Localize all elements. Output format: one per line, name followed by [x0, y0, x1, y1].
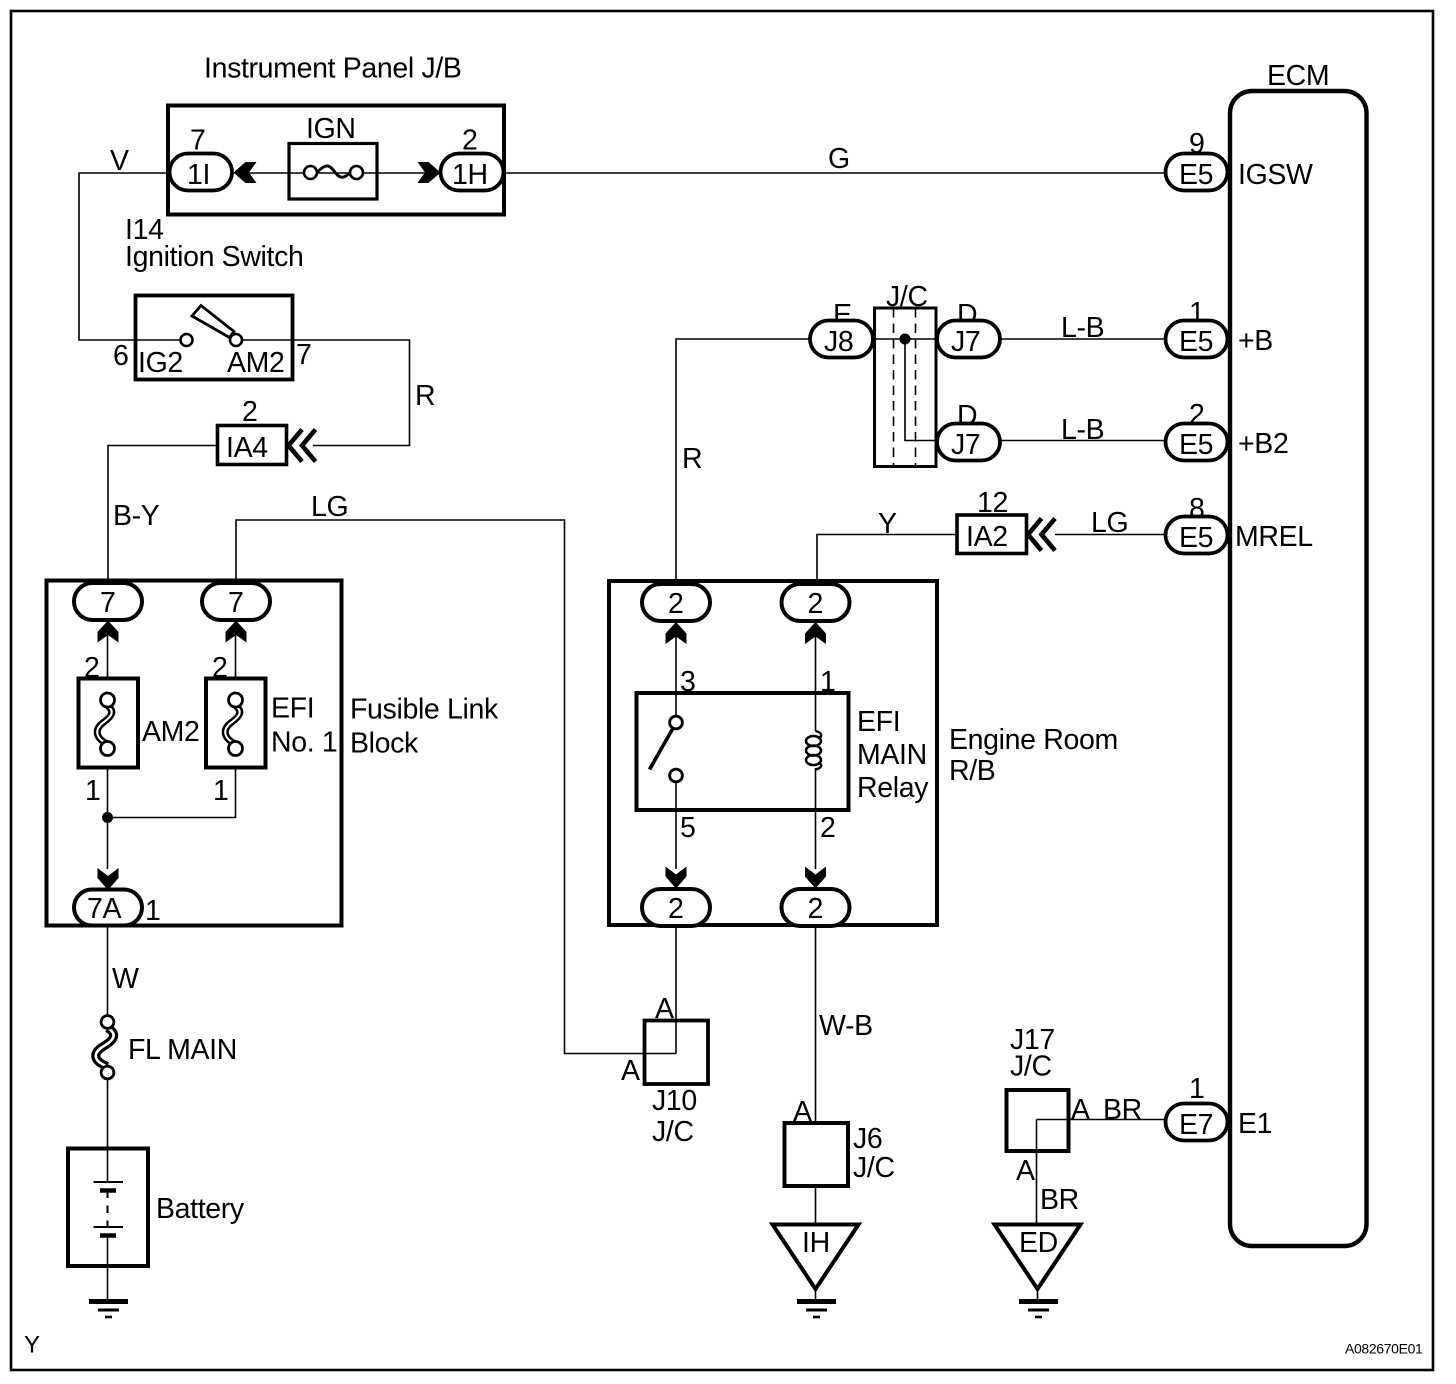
wire internal IPJB	[230, 172, 441, 174]
wire B-Y segment	[108, 446, 218, 584]
fusible link FL MAIN	[96, 1028, 114, 1067]
svg-text:Engine Room: Engine Room	[949, 724, 1118, 756]
svg-text:1: 1	[145, 895, 161, 927]
arrow up top right	[805, 622, 826, 644]
svg-text:BR: BR	[1103, 1094, 1142, 1126]
wire L-B upper	[1000, 338, 1166, 340]
fuse AM2 box	[79, 679, 139, 768]
connector IA4	[218, 426, 287, 465]
svg-text:J/C: J/C	[853, 1152, 895, 1184]
svg-text:IG2: IG2	[138, 347, 183, 379]
wire LG long segment	[236, 520, 676, 1054]
relay coil	[816, 731, 822, 739]
wire ED to ground	[1037, 1289, 1039, 1301]
svg-text:LG: LG	[311, 491, 348, 523]
connector J7 lower	[937, 424, 1000, 461]
svg-text:R: R	[415, 380, 435, 412]
fuse EFI box	[206, 679, 266, 768]
svg-text:IA2: IA2	[966, 521, 1008, 553]
connector IA2	[957, 515, 1027, 554]
connector E5 +B2	[1166, 424, 1228, 461]
ground battery	[89, 1299, 128, 1304]
svg-text:A082670E01: A082670E01	[1345, 1341, 1423, 1357]
wire G segment	[503, 172, 1166, 174]
svg-text:E1: E1	[1238, 1108, 1272, 1140]
svg-text:LG: LG	[1091, 507, 1128, 539]
svg-text:MREL: MREL	[1235, 521, 1313, 553]
svg-text:J10: J10	[652, 1085, 697, 1117]
svg-text:A: A	[621, 1055, 640, 1087]
svg-text:AM2: AM2	[227, 347, 285, 379]
arrow into 1I	[234, 162, 257, 183]
svg-text:V: V	[110, 145, 129, 177]
wire R/B to J10	[675, 925, 677, 1054]
svg-text:Y: Y	[878, 508, 897, 540]
junction connector J6 box	[785, 1123, 849, 1186]
svg-text:7: 7	[228, 587, 244, 619]
wire Y segment	[817, 535, 957, 586]
svg-text:6: 6	[113, 340, 129, 372]
ground IH	[797, 1299, 836, 1304]
svg-text:Ignition Switch: Ignition Switch	[125, 241, 304, 273]
switch lever	[192, 306, 234, 338]
svg-text:5: 5	[680, 812, 696, 844]
svg-text:ECM: ECM	[1267, 60, 1329, 92]
svg-text:IGSW: IGSW	[1238, 159, 1313, 191]
connector E5 IGSW	[1166, 154, 1228, 191]
svg-text:FL MAIN: FL MAIN	[128, 1034, 237, 1066]
arrow up left	[98, 621, 119, 643]
svg-text:2: 2	[668, 893, 684, 925]
relay switch lever	[650, 729, 673, 770]
svg-text:IH: IH	[802, 1227, 830, 1259]
junction connector J10 box	[645, 1021, 709, 1085]
connector J7 upper	[937, 321, 1000, 358]
svg-text:1I: 1I	[187, 159, 210, 191]
svg-text:R: R	[682, 443, 702, 475]
svg-text:Relay: Relay	[857, 772, 929, 804]
fuse IGN box	[289, 144, 377, 200]
svg-text:1: 1	[85, 775, 101, 807]
svg-text:IA4: IA4	[226, 432, 268, 464]
wire W segment	[107, 925, 109, 1017]
svg-text:2: 2	[820, 812, 836, 844]
wire relay coil branch	[815, 621, 817, 731]
ground triangle IH	[773, 1225, 859, 1290]
connector IA4 chevrons	[289, 430, 303, 462]
ignition switch box	[136, 296, 293, 380]
svg-text:2: 2	[668, 588, 684, 620]
ground triangle ED	[995, 1225, 1081, 1290]
ground ED	[1019, 1299, 1058, 1304]
wire junction vertical	[905, 339, 937, 441]
svg-text:Fusible Link: Fusible Link	[350, 694, 499, 726]
svg-text:L-B: L-B	[1061, 312, 1104, 344]
arrow down bottom right	[805, 867, 826, 889]
arrow up right	[226, 621, 247, 643]
svg-text:J6: J6	[853, 1123, 882, 1155]
wire BR to E7	[1037, 1119, 1167, 1121]
wire battery to ground	[107, 1266, 109, 1301]
wire BR down to ED	[1036, 1120, 1038, 1226]
svg-text:1: 1	[213, 775, 229, 807]
connector 1H	[441, 154, 504, 191]
wire R segment	[293, 340, 410, 446]
svg-text:B-Y: B-Y	[113, 500, 160, 532]
wire R to J8	[676, 339, 810, 583]
svg-text:W-B: W-B	[819, 1010, 873, 1042]
svg-text:J8: J8	[824, 326, 853, 358]
junction connector J17 box	[1007, 1090, 1069, 1151]
engine room R/B box	[609, 581, 937, 925]
svg-text:R/B: R/B	[949, 755, 995, 787]
svg-text:BR: BR	[1040, 1184, 1079, 1216]
connector 1I	[170, 154, 233, 191]
connector IA2 chevrons	[1028, 519, 1042, 551]
svg-text:+B2: +B2	[1238, 428, 1288, 460]
svg-text:No. 1: No. 1	[271, 727, 337, 759]
wire relay switch branch	[675, 621, 677, 716]
svg-text:G: G	[828, 143, 850, 175]
svg-text:EFI: EFI	[271, 693, 314, 725]
svg-text:E5: E5	[1179, 159, 1213, 191]
svg-text:E5: E5	[1179, 326, 1213, 358]
svg-text:IGN: IGN	[306, 113, 356, 145]
connector 7 left	[74, 583, 142, 620]
connector E7 E1	[1166, 1104, 1228, 1141]
fusible link block box	[47, 581, 342, 926]
connector 2 bottom right	[782, 889, 850, 926]
junction dot J/C	[900, 334, 911, 345]
wire IH to ground	[815, 1289, 817, 1301]
fuse EFI element	[225, 706, 240, 744]
relay switch contacts	[670, 716, 683, 729]
svg-text:2: 2	[242, 396, 258, 428]
svg-text:W: W	[112, 963, 139, 995]
svg-text:L-B: L-B	[1061, 414, 1104, 446]
svg-text:E5: E5	[1179, 522, 1213, 554]
switch contact AM2	[230, 334, 242, 346]
wire AM2 branch	[107, 620, 109, 694]
arrow into 1H	[418, 162, 441, 183]
svg-text:Instrument Panel J/B: Instrument Panel J/B	[204, 53, 462, 85]
svg-text:ED: ED	[1019, 1227, 1058, 1259]
fuse IGN element	[304, 166, 317, 179]
junction dot	[102, 812, 113, 823]
svg-text:1H: 1H	[452, 159, 488, 191]
switch contact IG2	[181, 334, 193, 346]
svg-text:2: 2	[808, 893, 824, 925]
svg-text:7A: 7A	[87, 893, 122, 925]
svg-text:J7: J7	[951, 326, 980, 358]
arrow down to 7A	[98, 868, 119, 890]
wire LG to MREL	[1055, 534, 1166, 536]
wire J8 to J7	[873, 338, 937, 340]
svg-text:A: A	[1016, 1155, 1035, 1187]
svg-text:AM2: AM2	[142, 716, 200, 748]
wire V segment	[79, 173, 170, 340]
svg-text:Battery: Battery	[156, 1193, 245, 1225]
connector 7 right	[202, 583, 270, 620]
ECM box	[1230, 91, 1367, 1246]
connector 2 top right	[782, 584, 850, 621]
svg-text:7: 7	[100, 587, 116, 619]
arrow down bottom left	[666, 867, 687, 889]
svg-text:E5: E5	[1179, 429, 1213, 461]
svg-text:+B: +B	[1238, 325, 1273, 357]
wire J6 to IH	[815, 1186, 817, 1225]
relay EFI MAIN box	[637, 693, 849, 810]
svg-text:Y: Y	[24, 1332, 40, 1359]
junction block Instrument Panel J/B box	[168, 106, 504, 215]
svg-text:7: 7	[296, 339, 312, 371]
battery element	[107, 1149, 109, 1183]
connector 7A	[74, 890, 142, 926]
wire through switch	[136, 339, 182, 341]
svg-text:Block: Block	[350, 728, 419, 760]
connector 2 top left	[642, 584, 710, 621]
svg-text:MAIN: MAIN	[857, 739, 927, 771]
connector 2 bottom left	[642, 889, 710, 926]
wire to battery	[107, 1079, 109, 1149]
svg-text:E7: E7	[1179, 1109, 1213, 1141]
connector E5 +B	[1166, 321, 1228, 358]
wire L-B lower	[1000, 440, 1166, 442]
arrow up top left	[666, 622, 687, 644]
svg-text:1: 1	[1189, 1073, 1205, 1105]
wire EFI branch	[235, 620, 237, 694]
svg-text:EFI: EFI	[857, 706, 900, 738]
fuse AM2 element	[97, 706, 112, 744]
svg-text:J7: J7	[951, 429, 980, 461]
svg-text:J/C: J/C	[1010, 1051, 1052, 1083]
svg-text:A: A	[1071, 1094, 1090, 1126]
svg-text:J/C: J/C	[652, 1116, 694, 1148]
battery box	[68, 1149, 148, 1267]
svg-text:2: 2	[808, 588, 824, 620]
wire W-B segment	[815, 925, 817, 1124]
connector E5 MREL	[1166, 517, 1228, 554]
connector J8	[810, 321, 873, 358]
